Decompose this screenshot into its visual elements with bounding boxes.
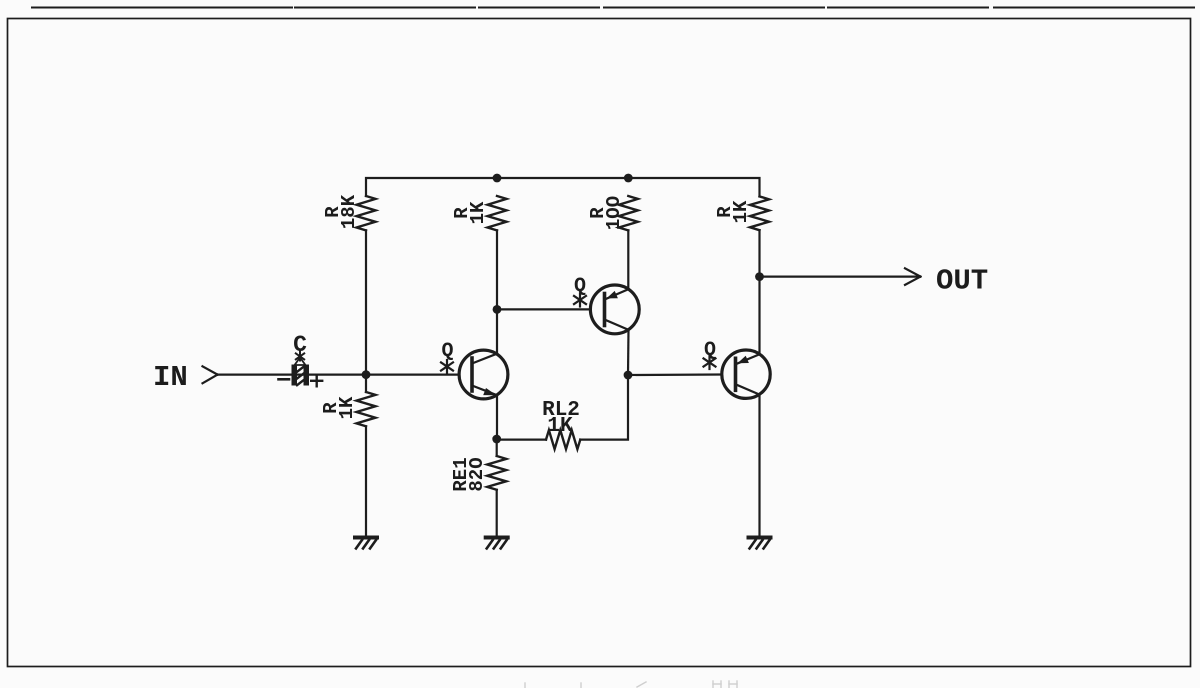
asterisk (Q3) — [704, 356, 716, 369]
wire: top supply rail — [366, 178, 760, 196]
resistor RE1 820 — [487, 456, 506, 490]
wire: node to RL2 — [497, 439, 546, 441]
wire: Q3 collector to ground — [758, 395, 760, 536]
resistor R 1K (Q1 collector load) — [488, 196, 507, 230]
node: Q2 collector / Q3 base junction — [624, 371, 633, 380]
wire: bus from R1K down to Q1 collector — [496, 230, 498, 353]
polarity triangle on capacitor — [295, 358, 306, 366]
svg-text:1K: 1K — [730, 200, 752, 223]
resistor R 18K — [357, 196, 376, 230]
wire: Q2 collector down to node — [627, 330, 630, 375]
resistor R 1K (output, top right) — [750, 196, 769, 230]
node: input junction — [362, 370, 371, 379]
wire: Q3 base wire — [628, 373, 722, 376]
resistor RL2 1K (horizontal) — [546, 430, 580, 449]
capacitor minus sign — [279, 378, 290, 381]
svg-text:18K: 18K — [338, 194, 360, 229]
label R 1K (lower left) — [320, 396, 358, 419]
wire: left bus to ground — [365, 426, 367, 536]
svg-text:1K: 1K — [547, 415, 573, 438]
ground (left bus) — [355, 538, 377, 549]
transistor Q3 (PNP) — [722, 350, 770, 398]
asterisk under C — [296, 352, 304, 361]
node: rail junction above R1K/Q1 — [493, 174, 502, 183]
resistor R 1K (input bias, lower left) — [357, 392, 376, 426]
capacitor plus sign — [311, 375, 322, 386]
resistor R 100 — [619, 196, 638, 230]
wire: node to RE1 — [496, 439, 498, 456]
IN arrow — [203, 366, 218, 383]
wire: left bus between R18K and input node — [365, 230, 367, 392]
wire: RL2 to Q2 collector node — [580, 375, 628, 440]
svg-text:1K: 1K — [336, 396, 358, 419]
wire: RE1 to ground — [496, 490, 498, 536]
caption fragment (faint, cut off at page bottom) — [525, 681, 737, 688]
svg-text:1K: 1K — [467, 201, 489, 224]
asterisk (Q2) — [574, 294, 586, 307]
svg-text:82O: 82O — [466, 457, 488, 491]
svg-text:1OO: 1OO — [603, 196, 625, 230]
asterisk (Q1) — [441, 360, 453, 373]
ground (RE1) — [486, 538, 508, 549]
page top edge line — [32, 7, 1194, 9]
node: Q1 emitter junction — [492, 435, 501, 444]
wire: Q2 base wire — [497, 308, 590, 310]
ground (output) — [749, 538, 771, 549]
wire: right bus from R1K down to Q3 emitter — [758, 230, 760, 354]
label RE1 820 — [450, 457, 488, 491]
capacitor C (polarized, hatched) — [292, 365, 310, 386]
label R 100 — [587, 196, 625, 230]
wire: bus from R100 down to Q2 emitter — [627, 230, 629, 289]
label R 1K (Q1 collector) — [451, 201, 489, 224]
transistor Q1 (NPN) — [459, 350, 508, 399]
label R 18K — [322, 194, 360, 229]
svg-text:IN: IN — [153, 361, 188, 394]
wire: OUT line — [760, 276, 921, 278]
node: Q2 base junction — [493, 305, 502, 314]
node: OUT junction — [755, 272, 764, 281]
wire: Q1 emitter to node — [496, 395, 498, 439]
node: rail junction above R100 — [624, 174, 633, 183]
transistor Q2 (PNP) — [590, 285, 639, 334]
svg-text:OUT: OUT — [936, 265, 988, 298]
label R 1K (output) — [714, 200, 752, 223]
OUT arrow — [905, 268, 921, 285]
wire: input line from IN arrow to Q1 base — [218, 374, 460, 376]
